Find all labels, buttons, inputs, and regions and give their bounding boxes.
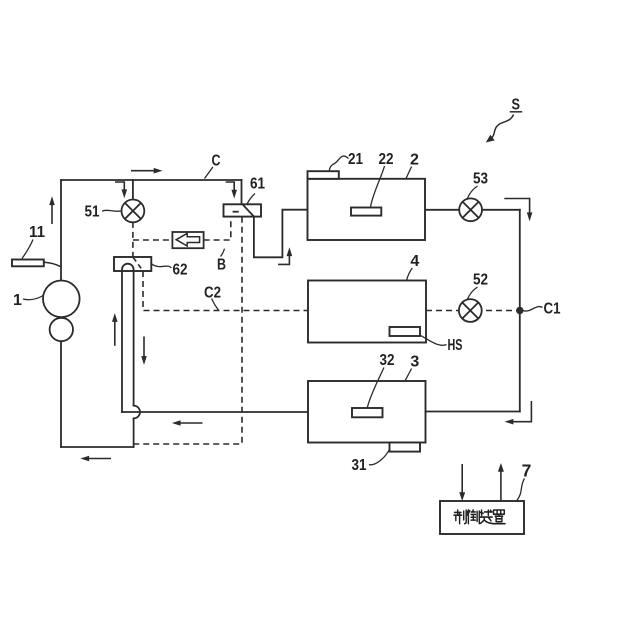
- wire compressor discharge vertical: [60, 180, 62, 281]
- svg-text:22: 22: [379, 151, 394, 168]
- svg-text:31: 31: [352, 457, 367, 474]
- arrowhead up controller: [498, 463, 504, 472]
- leader 62: [152, 264, 172, 268]
- control line to checkvalve B: [133, 239, 173, 241]
- valve 53: [459, 198, 482, 221]
- arrowhead right: [154, 168, 163, 174]
- wire box3 left horizontal: [122, 411, 308, 413]
- signal arrow into controller: [461, 464, 463, 495]
- wire right pipe down to hop: [133, 270, 135, 406]
- flow arrow top right-pointing: [131, 170, 156, 172]
- svg-text:53: 53: [473, 171, 488, 188]
- node C1 junction dot: [516, 307, 523, 314]
- svg-text:21: 21: [348, 151, 363, 168]
- arrowhead down valve61: [231, 190, 237, 199]
- heat exchanger box 2: [308, 179, 426, 240]
- arrowhead up zigzag: [287, 247, 293, 256]
- arrowhead left bottom: [80, 456, 89, 462]
- control line C2 vertical from 61: [134, 217, 242, 444]
- flow arrow bottom right corner left: [511, 401, 531, 422]
- flow arrow into valve61: [226, 182, 235, 192]
- svg-text:32: 32: [380, 352, 395, 369]
- arrowhead down valve51: [122, 189, 128, 198]
- control line valve51 down to 62: [132, 222, 134, 257]
- fan rect 32: [352, 408, 383, 417]
- wire bottom suction horizontal: [61, 446, 134, 448]
- svg-text:C2: C2: [204, 285, 221, 302]
- leader 3: [405, 369, 412, 381]
- leader 11: [22, 240, 33, 259]
- flow arrow pipe up: [114, 320, 116, 346]
- heat exchanger box 3: [308, 381, 426, 443]
- arrowhead down controller: [459, 492, 465, 501]
- receiver rect 62: [114, 257, 151, 271]
- leader 51: [102, 209, 122, 212]
- svg-text:2: 2: [410, 152, 419, 169]
- flow arrow zigzag up: [278, 254, 289, 264]
- svg-text:B: B: [217, 257, 226, 274]
- svg-text:C: C: [212, 153, 221, 170]
- valve 61 diagonal: [242, 204, 254, 216]
- control line B to valve61: [204, 217, 231, 240]
- leader 22: [371, 166, 385, 207]
- svg-text:C1: C1: [544, 301, 561, 318]
- control device box 7: [440, 501, 524, 534]
- control line 62 down to C2: [143, 271, 308, 311]
- arrowhead up left line: [49, 196, 55, 205]
- compressor 1 big circle: [43, 281, 80, 318]
- arrowhead S pointer: [486, 135, 495, 143]
- wire box2 to corner right: [425, 209, 520, 211]
- svg-text:52: 52: [473, 272, 488, 289]
- leader S squiggly arrow: [490, 115, 514, 140]
- arrowhead up pipe: [112, 313, 118, 322]
- compressor 1 small circle: [50, 318, 73, 341]
- control line C2 box4 to C1: [426, 310, 520, 312]
- wire right pipe below hop: [133, 418, 135, 447]
- wire valve51 stub: [132, 180, 134, 200]
- wire right vertical down: [519, 210, 521, 412]
- heat exchanger box 4: [308, 281, 426, 343]
- arrowhead left bottom right: [505, 419, 514, 425]
- leader 32: [367, 368, 384, 408]
- flow arrow bottom left-pointing: [87, 458, 111, 460]
- leader 2: [406, 167, 412, 179]
- leader C1: [523, 307, 542, 312]
- sensor rect 11: [12, 260, 44, 267]
- tab 21: [308, 171, 339, 179]
- wire discharge top horizontal C: [61, 179, 242, 181]
- leader B: [221, 249, 225, 257]
- arrowhead down top right: [527, 212, 533, 221]
- leader 21: [329, 156, 348, 171]
- pipe hop over wire: [134, 406, 140, 419]
- svg-text:62: 62: [173, 262, 188, 279]
- leader 4: [407, 268, 413, 280]
- signal arrow out of controller: [500, 470, 502, 502]
- sensor rect HS: [390, 327, 421, 336]
- flow arrow left vertical up: [51, 203, 53, 224]
- svg-text:1: 1: [13, 292, 22, 309]
- leader C2: [212, 299, 219, 311]
- svg-text:4: 4: [410, 253, 419, 270]
- svg-text:HS: HS: [448, 337, 463, 354]
- check valve B arrow symbol: [176, 233, 199, 246]
- leader 7: [517, 479, 525, 501]
- underline S: [510, 111, 523, 113]
- wire suction up to compressor: [60, 341, 62, 447]
- control line diagonal inside 62 redrawn: [133, 258, 143, 271]
- check valve B box: [172, 232, 203, 248]
- valve 52: [459, 299, 482, 322]
- svg-text:11: 11: [29, 224, 45, 241]
- wire left pipe up to 62: [121, 270, 123, 413]
- leader C: [205, 167, 213, 179]
- valve 61 body: [224, 204, 262, 216]
- leader 53: [467, 186, 477, 199]
- flow arrow into valve51: [115, 182, 124, 192]
- svg-text:7: 7: [522, 461, 532, 481]
- flow arrow top right corner down: [504, 199, 529, 215]
- pipe u-turn inside 62 redrawn: [122, 264, 134, 272]
- control line inside 62 diagonal: [133, 257, 143, 271]
- wire valve61 inlet drop: [241, 180, 243, 204]
- leader 61: [247, 194, 255, 205]
- fan rect 22: [351, 208, 381, 216]
- flow arrow mid left-pointing: [179, 422, 203, 424]
- svg-text:61: 61: [250, 176, 265, 193]
- leader HS: [420, 335, 447, 345]
- svg-text:51: 51: [85, 204, 100, 221]
- valve 61 dash mark: [233, 211, 239, 213]
- valve 51: [121, 200, 144, 223]
- svg-text:S: S: [512, 97, 521, 114]
- controller text 制御装置 drawn strokes: [454, 510, 505, 524]
- connector 11 to pipe: [44, 262, 61, 266]
- wire right bottom to box3: [426, 411, 520, 413]
- tab 31: [390, 443, 421, 452]
- arrowhead down pipe: [141, 356, 147, 365]
- svg-text:3: 3: [410, 354, 419, 371]
- leader 31: [369, 450, 389, 465]
- wire zigzag 61 to box2: [254, 210, 308, 258]
- pipe u-turn arc in 62: [122, 264, 134, 270]
- leader 1: [23, 296, 43, 300]
- arrowhead left mid: [172, 420, 181, 426]
- leader 52: [467, 287, 477, 300]
- flow arrow pipe down: [143, 337, 145, 359]
